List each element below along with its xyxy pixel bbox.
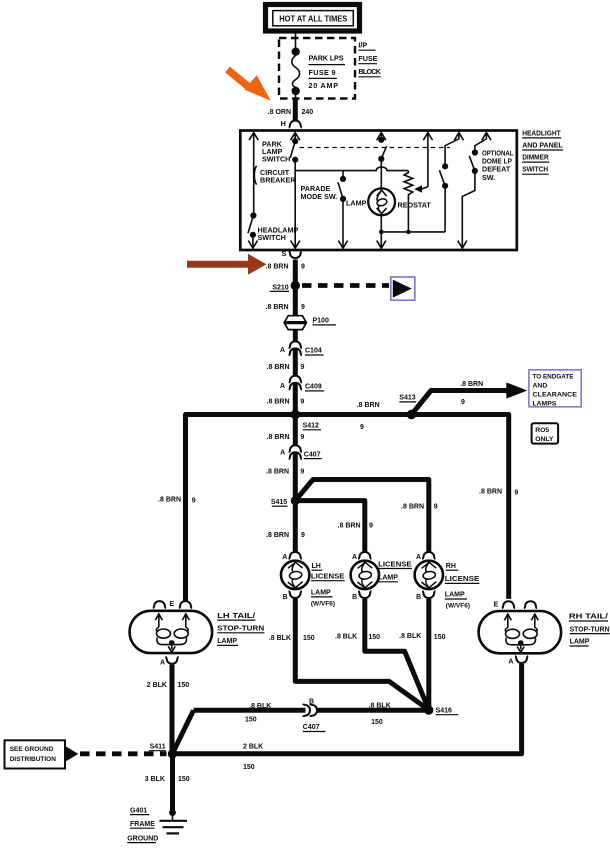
svg-text:.8 BRN: .8 BRN (401, 504, 424, 511)
svg-text:.8 BRN: .8 BRN (460, 381, 483, 388)
svg-text:.8 BRN: .8 BRN (266, 264, 289, 271)
svg-text:LAMP: LAMP (378, 575, 398, 582)
svg-text:A: A (508, 659, 513, 666)
svg-text:SWITCH: SWITCH (262, 155, 290, 164)
svg-text:2 BLK: 2 BLK (243, 744, 263, 751)
svg-text:150: 150 (303, 635, 315, 642)
svg-text:S416: S416 (436, 708, 452, 715)
svg-text:RH TAIL/: RH TAIL/ (569, 614, 608, 621)
svg-text:LICENSE: LICENSE (378, 561, 412, 568)
svg-text:RH: RH (446, 563, 456, 570)
svg-text:BLOCK: BLOCK (358, 67, 381, 76)
svg-text:LH TAIL/: LH TAIL/ (217, 613, 255, 620)
svg-text:.8 BRN: .8 BRN (267, 364, 290, 371)
svg-text:240: 240 (302, 109, 314, 116)
svg-text:LAMP: LAMP (445, 592, 465, 599)
svg-text:9: 9 (192, 498, 196, 505)
svg-text:I/P: I/P (358, 40, 367, 49)
svg-text:B: B (352, 594, 357, 601)
svg-text:LH: LH (312, 563, 321, 570)
svg-text:2 BLK: 2 BLK (147, 682, 167, 689)
svg-text:C104: C104 (305, 348, 322, 355)
svg-text:E: E (494, 601, 499, 608)
svg-text:B: B (283, 594, 288, 601)
svg-text:A: A (160, 660, 165, 667)
svg-text:P100: P100 (313, 318, 329, 325)
svg-text:150: 150 (243, 764, 255, 771)
svg-text:S411: S411 (150, 744, 166, 751)
svg-text:MODE SW.: MODE SW. (301, 192, 338, 201)
svg-text:9: 9 (300, 469, 304, 476)
svg-text:(W/VF6): (W/VF6) (446, 602, 470, 609)
svg-text:STOP-TURN: STOP-TURN (217, 626, 264, 633)
svg-text:9: 9 (301, 264, 305, 271)
svg-text:A: A (352, 554, 357, 561)
svg-text:3 BLK: 3 BLK (145, 776, 165, 783)
svg-text:150: 150 (434, 634, 446, 641)
svg-text:ONLY: ONLY (535, 436, 554, 443)
svg-text:.8 BRN: .8 BRN (267, 434, 290, 441)
svg-text:.8 BRN: .8 BRN (266, 469, 289, 476)
svg-text:SWITCH: SWITCH (258, 233, 286, 242)
svg-text:A: A (282, 554, 287, 561)
svg-text:.8 ORN: .8 ORN (268, 109, 291, 116)
svg-text:C407: C407 (303, 724, 320, 731)
svg-text:FUSE: FUSE (358, 54, 377, 63)
svg-text:LAMP: LAMP (570, 639, 590, 646)
svg-text:9: 9 (360, 424, 364, 431)
svg-text:REOSTAT: REOSTAT (398, 201, 432, 210)
svg-text:LAMP: LAMP (346, 199, 367, 208)
svg-text:9: 9 (300, 434, 304, 441)
svg-text:.8 BLK: .8 BLK (335, 634, 357, 641)
svg-text:A: A (280, 450, 285, 457)
svg-text:9: 9 (300, 399, 304, 406)
svg-text:150: 150 (368, 634, 380, 641)
svg-text:SEE GROUND: SEE GROUND (10, 746, 54, 753)
svg-text:LAMP: LAMP (217, 638, 237, 645)
svg-text:GROUND: GROUND (127, 835, 158, 842)
svg-text:S415: S415 (271, 499, 287, 506)
svg-text:.8 BRN: .8 BRN (267, 398, 290, 405)
svg-text:A: A (416, 554, 421, 561)
svg-text:LAMP: LAMP (311, 590, 331, 597)
svg-text:TO ENDGATE: TO ENDGATE (533, 373, 574, 380)
svg-text:B: B (416, 594, 421, 601)
svg-text:.8 BRN: .8 BRN (479, 488, 502, 495)
svg-text:.8 BLK: .8 BLK (369, 703, 391, 710)
svg-text:A: A (280, 383, 285, 390)
svg-text:150: 150 (245, 716, 257, 723)
svg-text:.8 BRN: .8 BRN (266, 532, 289, 539)
svg-text:LICENSE: LICENSE (445, 576, 480, 583)
svg-text:SWITCH: SWITCH (522, 165, 548, 174)
svg-text:SW.: SW. (482, 173, 495, 182)
svg-text:.8 BLK: .8 BLK (249, 703, 271, 710)
svg-text:LICENSE: LICENSE (311, 573, 345, 580)
svg-text:H: H (281, 119, 286, 128)
svg-text:S412: S412 (303, 423, 319, 430)
svg-text:AND: AND (533, 382, 548, 389)
svg-text:HEADLIGHT: HEADLIGHT (522, 128, 561, 137)
svg-text:HOT AT ALL TIMES: HOT AT ALL TIMES (279, 14, 347, 24)
svg-text:.8 BRN: .8 BRN (266, 304, 289, 311)
svg-text:C407: C407 (304, 451, 321, 458)
svg-text:9: 9 (301, 532, 305, 539)
svg-text:150: 150 (178, 682, 190, 689)
svg-text:S210: S210 (272, 284, 288, 291)
svg-text:C409: C409 (305, 383, 322, 390)
svg-text:9: 9 (461, 399, 465, 406)
svg-text:9: 9 (514, 490, 518, 497)
svg-text:.8 BLK: .8 BLK (399, 633, 421, 640)
svg-text:DISTRIBUTION: DISTRIBUTION (10, 756, 57, 763)
svg-text:BREAKER: BREAKER (260, 175, 296, 184)
svg-text:9: 9 (369, 523, 373, 530)
svg-text:FUSE 9: FUSE 9 (309, 68, 336, 77)
svg-text:(W/VF6): (W/VF6) (311, 600, 335, 607)
svg-text:9: 9 (434, 504, 438, 511)
svg-text:.8 BLK: .8 BLK (269, 635, 291, 642)
svg-text:LAMPS: LAMPS (533, 400, 557, 407)
svg-text:150: 150 (178, 776, 190, 783)
svg-text:STOP-TURN: STOP-TURN (570, 626, 610, 633)
svg-text:G401: G401 (130, 807, 147, 814)
svg-text:AND PANEL: AND PANEL (522, 140, 563, 149)
svg-text:9: 9 (301, 304, 305, 311)
svg-text:.8 BRN: .8 BRN (357, 402, 380, 409)
svg-text:RO5: RO5 (535, 427, 549, 434)
svg-text:150: 150 (371, 719, 383, 726)
svg-text:DIMMER: DIMMER (522, 153, 549, 162)
svg-text:A: A (280, 347, 285, 354)
svg-text:20 AMP: 20 AMP (309, 81, 339, 90)
svg-text:S: S (282, 249, 287, 258)
svg-text:B: B (309, 698, 314, 705)
svg-text:.8 BRN: .8 BRN (338, 523, 361, 530)
svg-text:E: E (170, 601, 175, 608)
svg-text:PARK LPS: PARK LPS (309, 54, 344, 63)
svg-text:9: 9 (301, 364, 305, 371)
svg-text:S413: S413 (399, 395, 415, 402)
svg-text:CLEARANCE: CLEARANCE (533, 391, 578, 398)
svg-text:FRAME: FRAME (130, 821, 155, 828)
svg-text:.8 BRN: .8 BRN (158, 497, 181, 504)
